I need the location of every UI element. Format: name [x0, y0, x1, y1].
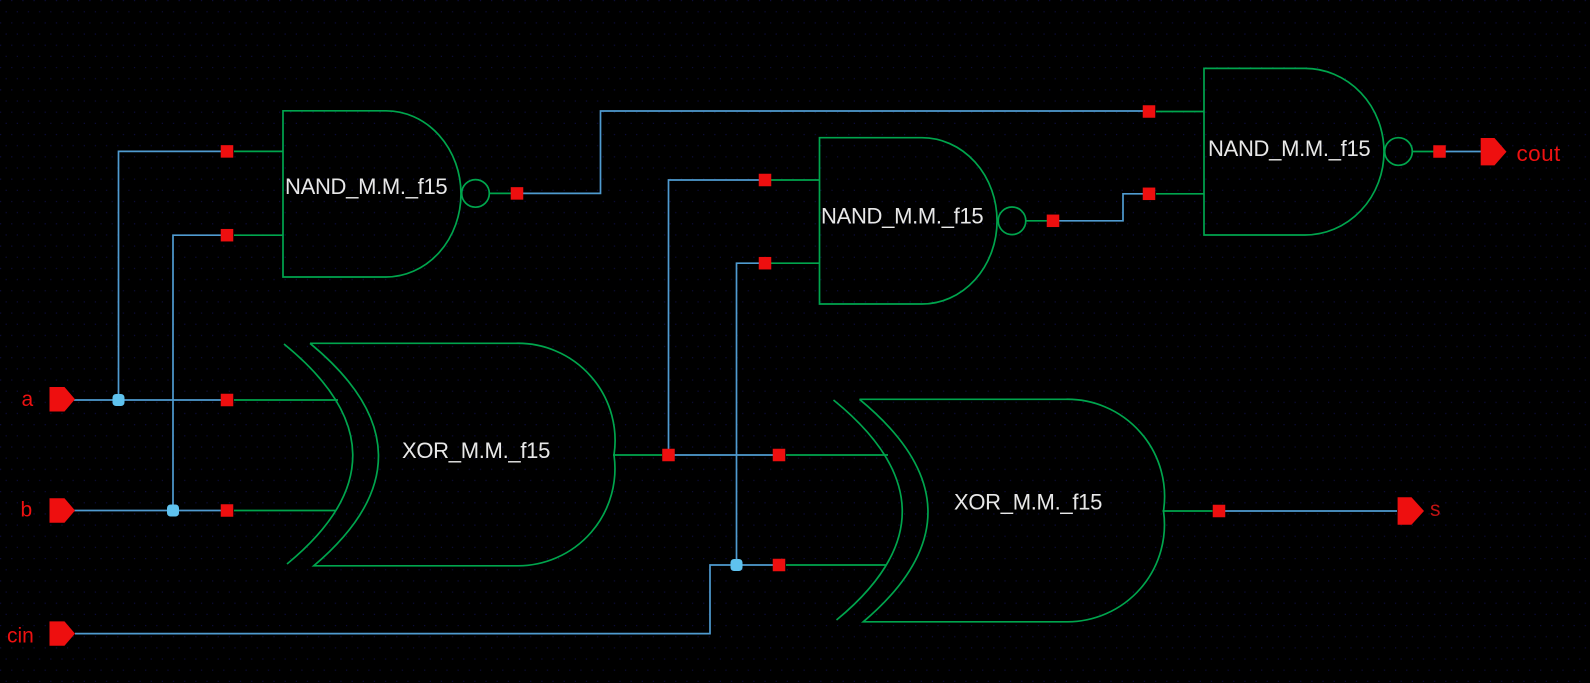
svg-text:XOR_M.M._f15: XOR_M.M._f15	[402, 438, 550, 463]
svg-text:NAND_M.M._f15: NAND_M.M._f15	[285, 174, 447, 199]
svg-text:a: a	[22, 388, 34, 411]
svg-text:NAND_M.M._f15: NAND_M.M._f15	[821, 204, 983, 229]
svg-text:cin: cin	[7, 625, 34, 648]
svg-text:b: b	[21, 499, 33, 522]
svg-text:s: s	[1430, 498, 1441, 521]
svg-text:NAND_M.M._f15: NAND_M.M._f15	[1208, 136, 1370, 161]
svg-text:XOR_M.M._f15: XOR_M.M._f15	[954, 490, 1102, 515]
svg-text:cout: cout	[1517, 141, 1561, 166]
